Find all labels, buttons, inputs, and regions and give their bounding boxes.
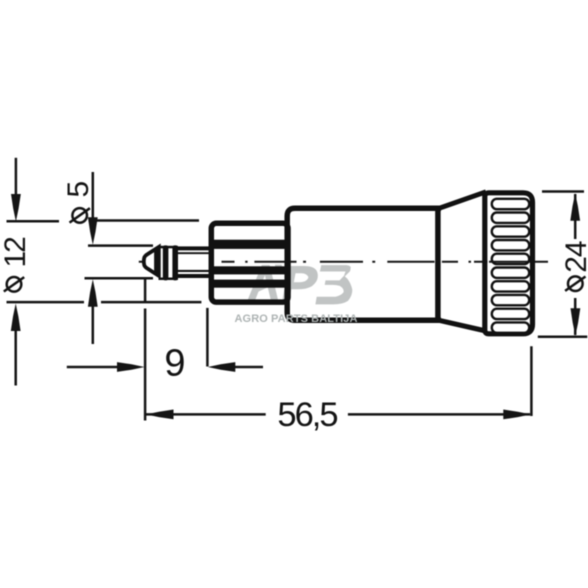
dimension Ø24 lines bbox=[538, 192, 588, 337]
diameter symbol Ø12 bbox=[4, 277, 24, 292]
body housing outline bbox=[287, 208, 441, 320]
diameter symbol Ø5 bbox=[70, 208, 90, 223]
body to cone boundary line bbox=[435, 206, 441, 323]
pin shaft edges bbox=[176, 246, 213, 278]
plug silhouette white fills bbox=[211, 191, 532, 334]
diameter symbol Ø24 bbox=[565, 276, 585, 291]
svg-text:12: 12 bbox=[0, 237, 32, 268]
dimension Ø12 lines bbox=[7, 158, 202, 386]
arrow Ø5 top bbox=[88, 217, 98, 245]
pin bullet tip bbox=[144, 247, 159, 276]
watermark logo letter P bbox=[282, 266, 318, 303]
cone top edge bbox=[439, 192, 486, 209]
svg-text:9: 9 bbox=[164, 343, 185, 385]
svg-text:AGRO PARTS BALTIJA: AGRO PARTS BALTIJA bbox=[235, 313, 358, 325]
arrow 9 left bbox=[117, 362, 145, 372]
knurled cap outline bbox=[485, 193, 533, 334]
arrow Ø24 bottom bbox=[571, 308, 581, 336]
watermark logo letter 3 bbox=[315, 265, 352, 304]
dimension Ø5 lines bbox=[85, 172, 154, 344]
arrow Ø24 top bbox=[570, 193, 580, 221]
sleeve inner band upper bbox=[214, 240, 288, 249]
pin bullet base line bbox=[154, 248, 157, 275]
svg-text:24: 24 bbox=[560, 241, 588, 273]
knurled cap left edge line bbox=[483, 194, 486, 333]
svg-text:5: 5 bbox=[62, 181, 95, 198]
cone bottom edge bbox=[439, 320, 486, 331]
arrow 56,5 right bbox=[503, 410, 531, 420]
dimension 56,5 lines bbox=[146, 346, 531, 416]
centerline dash-dot bbox=[139, 261, 548, 263]
sleeve inner band lower bbox=[214, 280, 288, 288]
centerline across knurl bbox=[489, 261, 531, 263]
arrow Ø5 bottom bbox=[88, 279, 98, 307]
arrow Ø12 top bbox=[11, 194, 21, 222]
pin ribs bbox=[159, 245, 179, 280]
dimension 9 lines bbox=[67, 279, 263, 421]
arrow 9 right bbox=[208, 362, 236, 372]
knurl slots bbox=[492, 199, 529, 333]
watermark logo letter A bbox=[247, 265, 283, 303]
sleeve collar outline bbox=[211, 223, 288, 302]
sleeve inner band middle bbox=[214, 266, 288, 274]
arrow Ø12 bottom bbox=[11, 304, 21, 332]
svg-text:56,5: 56,5 bbox=[277, 396, 337, 434]
arrow 56,5 left bbox=[146, 410, 174, 420]
